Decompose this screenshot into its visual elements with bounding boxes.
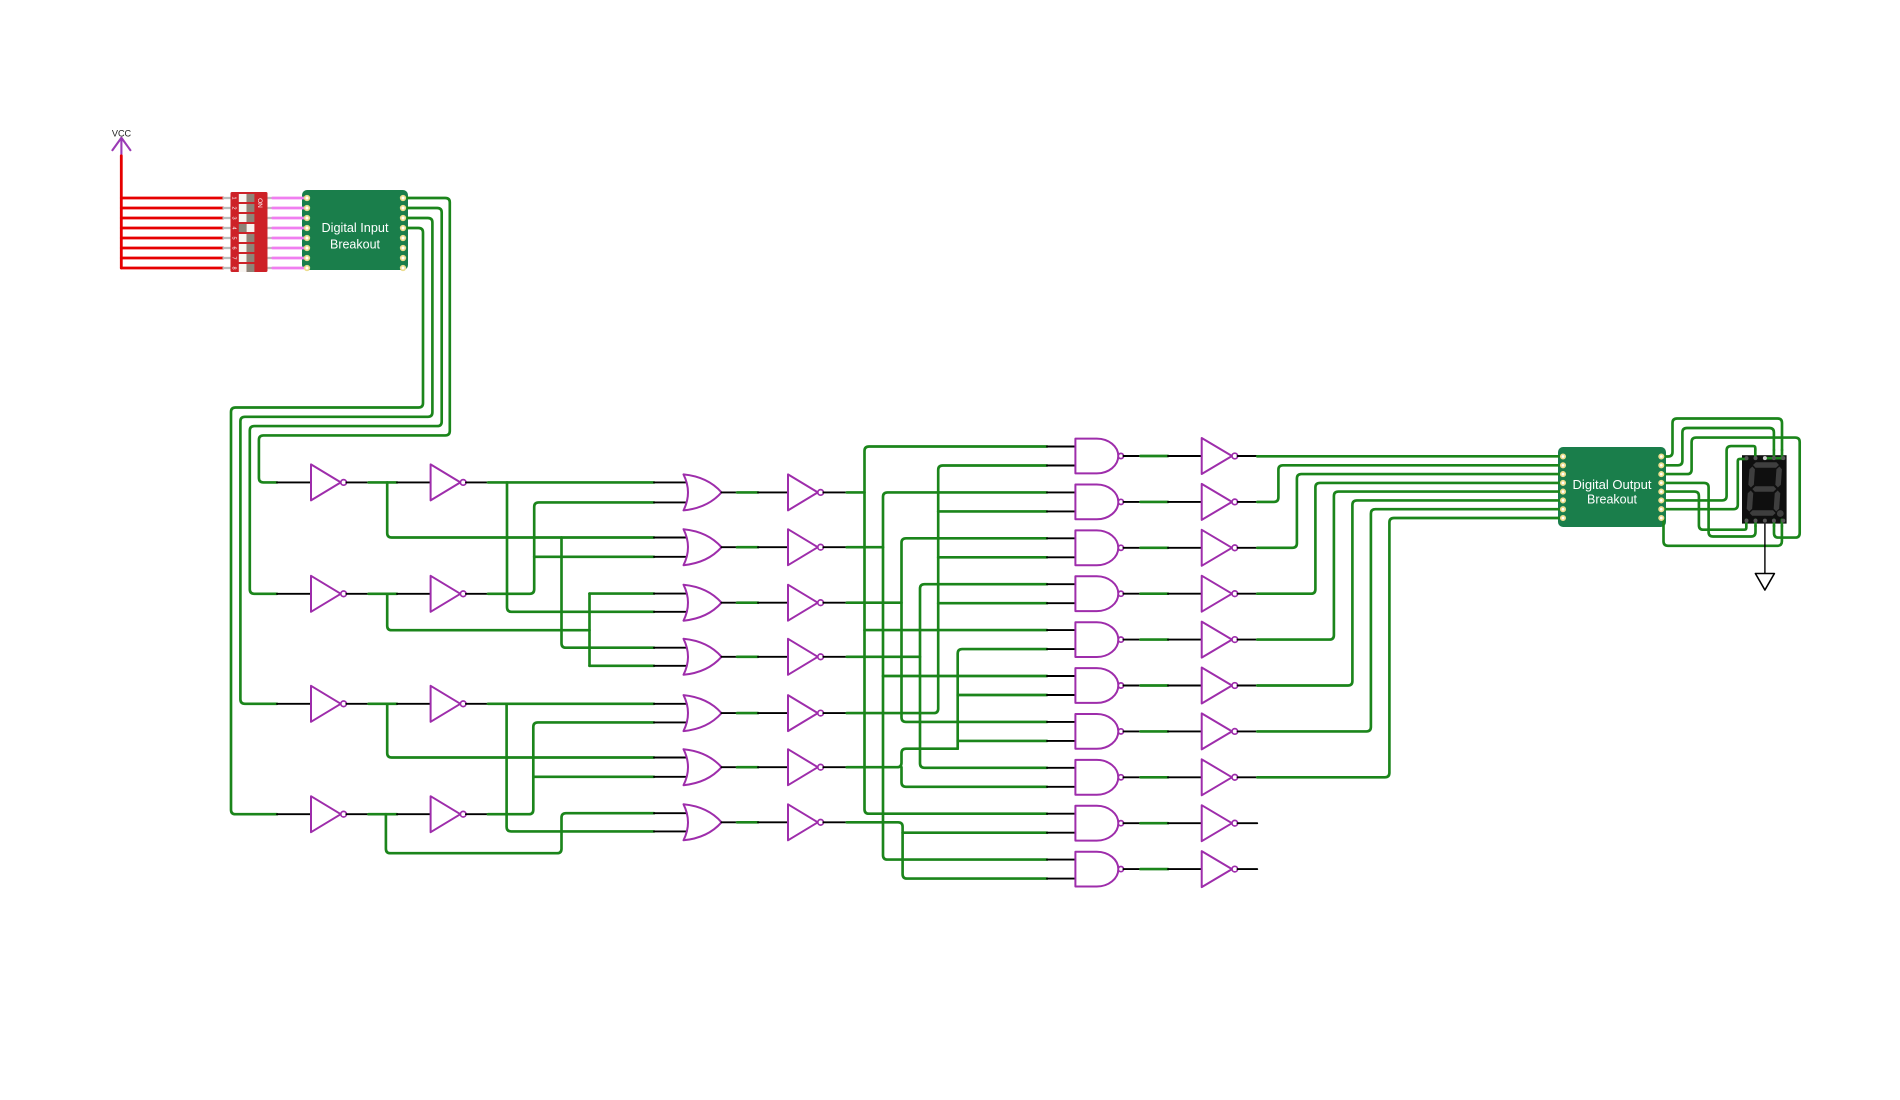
- wire seg out2 to breakout pin2: [1257, 465, 1563, 502]
- pin stub inverter U38 input: [1168, 639, 1202, 641]
- pin stub inverter U9 input: [397, 813, 432, 815]
- pin stub inverter U43 output: [1238, 868, 1258, 870]
- wire VCC trunk (red): [120, 156, 123, 268]
- pin stub inverter U39 output: [1238, 685, 1258, 687]
- trunk2 vertical (out2): [883, 492, 1047, 859]
- nand gate U33 (row 10): [1075, 852, 1118, 887]
- inverter U18 (column 3 row 2): [788, 529, 818, 565]
- wire OR U15 out: [737, 766, 758, 769]
- wire b' to OR3 top: [590, 592, 655, 595]
- pin stub NAND U30 output: [1124, 730, 1141, 732]
- pin stub inverter U34 output: [1238, 455, 1258, 457]
- pin stub inverter U7 input: [397, 593, 432, 595]
- wire NAND U26 to inverter: [1140, 546, 1168, 549]
- inverter U5 (column 1 row 4): [311, 796, 341, 832]
- pin stub inverter U23 input: [758, 821, 789, 823]
- pin stub NAND U33 input top: [1047, 859, 1076, 861]
- wire tip bottom pin4: [1773, 520, 1776, 526]
- pin stub NAND U32 input bottom: [1047, 832, 1076, 834]
- pin stub inverter U34 input: [1168, 455, 1202, 457]
- wire out6 cluster up to trunk6: [847, 749, 958, 768]
- power symbol VCC arrow: [112, 138, 130, 155]
- pin stub inverter U17 input: [758, 491, 789, 493]
- wire seg out3 to breakout pin3: [1257, 474, 1563, 548]
- wire breakout p5 to display bottom pin1: [1661, 492, 1746, 530]
- wire DIP 7 to input breakout (pink): [273, 257, 305, 260]
- pin stub inverter U2 input: [277, 481, 312, 483]
- pin stub OR U10 input bottom: [654, 501, 690, 503]
- pin stub inverter U19 input: [758, 602, 789, 604]
- wire DIP 5 to input breakout (pink): [273, 237, 305, 240]
- wire b to OR2 bottom: [534, 555, 654, 558]
- inverter U8 (column 2 row 3): [431, 686, 461, 722]
- pin stub inverter U43 input: [1168, 868, 1202, 870]
- pin stub NAND U33 input bottom: [1047, 878, 1076, 880]
- pin stub inverter U18 output: [823, 546, 846, 548]
- wire input bit1 to inverter row1: [259, 198, 450, 482]
- pin stub inverter U7 output: [466, 593, 488, 595]
- nand gate U32 (row 9): [1075, 806, 1118, 841]
- wire c to OR7 bottom: [507, 704, 654, 832]
- wire VCC to DIP pin 4 (red): [121, 227, 223, 230]
- pin stub OR U15 input bottom: [654, 776, 690, 778]
- wire trunk2 to NAND6 top: [883, 675, 1047, 678]
- pin stub OR U16 output: [722, 821, 738, 823]
- wire out2 to trunk2: [847, 546, 883, 549]
- wire out3 to trunk3: [847, 601, 902, 604]
- wire display common to ground: [1764, 524, 1766, 574]
- pin stub inverter U2 output: [346, 481, 368, 483]
- wire out6 down to NAND8 bottom: [902, 767, 1048, 787]
- pin stub NAND U27 output: [1124, 593, 1141, 595]
- wire a' branch to OR2 top: [387, 482, 654, 537]
- or gate U10 (row 1): [684, 474, 722, 510]
- pin stub NAND U25 output: [1124, 501, 1141, 503]
- digital output breakout U44 pins: [1561, 454, 1565, 458]
- pin stub NAND U25 input bottom: [1047, 510, 1076, 512]
- svg-text:6: 6: [231, 246, 237, 249]
- pin stub NAND U25 input top: [1047, 491, 1076, 493]
- svg-text:4: 4: [231, 226, 237, 229]
- svg-text:7: 7: [231, 256, 237, 259]
- nand gate U24 (row 1): [1075, 439, 1118, 474]
- pin stub inverter U20 input: [758, 656, 789, 658]
- pin stub OR U13 input bottom: [654, 665, 690, 667]
- wire out7 to trunk7: [847, 822, 1047, 878]
- svg-text:1: 1: [231, 196, 237, 199]
- pin stub OR U14 input top: [654, 703, 690, 705]
- wire OR U10 out: [737, 491, 758, 494]
- or gate U16 (row 7): [684, 804, 722, 840]
- wire breakout p2 to display top pin4: [1661, 428, 1774, 465]
- trunk6 riser vertical: [958, 649, 1047, 749]
- 7-segment display DS1 body: [1742, 455, 1787, 523]
- wire VCC to DIP pin 2 (red): [121, 207, 223, 210]
- pin stub NAND U33 output: [1124, 868, 1141, 870]
- pin stub inverter U20 output: [823, 656, 846, 658]
- wire VCC to DIP pin 1 (red): [121, 197, 223, 200]
- pin stub inverter U36 input: [1168, 547, 1202, 549]
- svg-text:3: 3: [231, 216, 237, 219]
- wire breakout p3 to display bottom pin4: [1661, 438, 1799, 538]
- pin stub NAND U26 input top: [1047, 537, 1076, 539]
- inverter U43 (column 4 row 10): [1202, 851, 1232, 887]
- pin stub inverter U23 output: [823, 821, 846, 823]
- inverter U2 (column 1 row 1): [311, 464, 341, 500]
- wire input bit2 to inverter row2: [250, 208, 442, 594]
- wire NAND U30 to inverter: [1140, 730, 1168, 733]
- pin stub NAND U29 input bottom: [1047, 694, 1076, 696]
- pin stub inverter U36 output: [1238, 547, 1258, 549]
- pin stub OR U15 input top: [654, 757, 690, 759]
- or gate U15 (row 6): [684, 749, 722, 785]
- pin stub OR U12 output: [722, 602, 738, 604]
- wire NAND U31 to inverter: [1140, 776, 1168, 779]
- pin stub inverter U35 output: [1238, 501, 1258, 503]
- wire input bit3 to inverter row3: [240, 218, 432, 704]
- inverter U20 (column 3 row 4): [788, 639, 818, 675]
- wire tip top pin1: [1742, 458, 1747, 461]
- or gate U13 (row 4): [684, 639, 722, 675]
- pin stub NAND U29 input top: [1047, 675, 1076, 677]
- pin stub inverter U18 input: [758, 546, 789, 548]
- pin stub OR U15 output: [722, 766, 738, 768]
- svg-text:5: 5: [231, 236, 237, 239]
- pin stub NAND U27 input bottom: [1047, 602, 1076, 604]
- wire d' branch around buffer: [386, 813, 654, 853]
- wire breakout p6 to display top pin2: [1661, 446, 1755, 500]
- pin stub OR U14 input bottom: [654, 721, 690, 723]
- wire OR U14 out: [737, 712, 758, 715]
- wire OR U11 out: [737, 546, 758, 549]
- pin stub inverter U42 output: [1238, 822, 1258, 824]
- inverter U9 (column 2 row 4): [431, 796, 461, 832]
- pin stub OR U11 input top: [654, 537, 690, 539]
- wire DIP 4 to input breakout (pink): [273, 227, 305, 230]
- wire trunk7 to NAND9 bottom: [903, 831, 1047, 834]
- ground symbol: [1755, 574, 1774, 591]
- wire seg out5 to breakout pin5: [1257, 492, 1563, 640]
- wire NAND U33 to inverter: [1140, 868, 1168, 871]
- pin stub OR U13 output: [722, 656, 738, 658]
- svg-text:ON: ON: [256, 198, 263, 208]
- inverter U42 (column 4 row 9): [1202, 805, 1232, 841]
- wire c' branch to OR6 top: [387, 704, 654, 758]
- wire display top pin3 link: [1767, 457, 1784, 460]
- nand gate U28 (row 5): [1075, 622, 1118, 657]
- wire seg out7 to breakout pin7: [1257, 509, 1563, 731]
- wire DIP 8 to input breakout (pink): [273, 267, 305, 270]
- wire inverter U2 out to buffer: [369, 481, 398, 484]
- wire tip top pin4: [1773, 450, 1776, 459]
- wire trunk6 to NAND6 bottom: [958, 694, 1047, 697]
- pin stub inverter U4 output: [346, 703, 368, 705]
- trunk1 vertical (out1): [865, 447, 1048, 814]
- wire out5 to trunk5: [847, 466, 1047, 714]
- pin stub NAND U32 input top: [1047, 813, 1076, 815]
- wire NAND U27 to inverter: [1140, 592, 1168, 595]
- wire tip bottom pin1: [1745, 520, 1748, 526]
- pin stub inverter U38 output: [1238, 639, 1258, 641]
- wire breakout p4 to display bottom pin2: [1661, 483, 1755, 537]
- wire c to OR5 top: [488, 702, 654, 705]
- trunk3 vertical (out3): [902, 538, 1048, 722]
- inverter U21 (column 3 row 5): [788, 695, 818, 731]
- pin stub inverter U8 input: [397, 703, 432, 705]
- pin stub inverter U37 input: [1168, 593, 1202, 595]
- wire VCC to DIP pin 5 (red): [121, 237, 223, 240]
- pin stub OR U12 input bottom: [654, 611, 690, 613]
- pin stub NAND U24 input bottom: [1047, 465, 1076, 467]
- pin stub inverter U8 output: [466, 703, 488, 705]
- wire DIP 6 to input breakout (pink): [273, 247, 305, 250]
- pin stub OR U13 input top: [654, 647, 690, 649]
- or gate U11 (row 2): [684, 529, 722, 565]
- wire NAND U28 to inverter: [1140, 638, 1168, 641]
- pin stub NAND U28 input bottom: [1047, 648, 1076, 650]
- wire NAND U32 to inverter: [1140, 822, 1168, 825]
- wire NAND U25 to inverter: [1140, 501, 1168, 504]
- wire inverter U4 out to buffer: [369, 702, 398, 705]
- wire tip top pin5: [1781, 450, 1784, 459]
- svg-text:Digital Input: Digital Input: [322, 220, 389, 235]
- pin stub NAND U27 input top: [1047, 583, 1076, 585]
- inverter U19 (column 3 row 3): [788, 585, 818, 621]
- wire trunk5 to NAND2 bottom: [938, 510, 1047, 513]
- or gate U12 (row 3): [684, 585, 722, 621]
- pin stub NAND U26 input bottom: [1047, 556, 1076, 558]
- pin stub inverter U17 output: [823, 491, 846, 493]
- pin stub NAND U24 output: [1124, 455, 1141, 457]
- inverter U22 (column 3 row 6): [788, 749, 818, 785]
- pin stub inverter U40 output: [1238, 730, 1258, 732]
- svg-text:Digital Output: Digital Output: [1573, 478, 1653, 492]
- wire b' to OR4 bottom: [590, 664, 655, 667]
- inverter U34 (column 4 row 1): [1202, 438, 1232, 474]
- wire DIP 2 to input breakout (pink): [273, 207, 305, 210]
- wire trunk6 to NAND7 bottom: [958, 740, 1047, 743]
- wire breakout p1 to display top pin5: [1661, 419, 1782, 457]
- pin stub NAND U28 output: [1124, 639, 1141, 641]
- inverter U38 (column 4 row 5): [1202, 622, 1232, 658]
- inverter U4 (column 1 row 3): [311, 686, 341, 722]
- 7-segment display DS1 pins: [1745, 456, 1749, 460]
- inverter U17 (column 3 row 1): [788, 474, 818, 510]
- pin stub inverter U37 output: [1238, 593, 1258, 595]
- pin stub inverter U5 input: [277, 813, 312, 815]
- wire DIP 1 to input breakout (pink): [273, 197, 305, 200]
- wire breakout p8 to display bottom pin5: [1661, 518, 1782, 546]
- nand gate U30 (row 7): [1075, 714, 1118, 749]
- or gate U14 (row 5): [684, 695, 722, 731]
- pin stub NAND U29 output: [1124, 685, 1141, 687]
- wire seg out1 to breakout pin1: [1257, 455, 1563, 458]
- wire tip bottom pin5: [1781, 520, 1784, 526]
- inverter U41 (column 4 row 8): [1202, 759, 1232, 795]
- wire trunk5 to NAND3 bottom: [938, 556, 1047, 559]
- pin stub inverter U41 input: [1168, 776, 1202, 778]
- pin stub inverter U4 input: [277, 703, 312, 705]
- wire a to OR3 bottom (Q): [507, 482, 654, 611]
- wire seg out6 to breakout pin6: [1257, 500, 1563, 685]
- pin stub inverter U6 output: [466, 481, 488, 483]
- inverter U36 (column 4 row 3): [1202, 530, 1232, 566]
- inverter U37 (column 4 row 4): [1202, 576, 1232, 612]
- pin stub NAND U24 input top: [1047, 446, 1076, 448]
- wire a to OR1 top: [488, 481, 654, 484]
- pin stub inverter U3 output: [346, 593, 368, 595]
- pin stub NAND U30 input bottom: [1047, 740, 1076, 742]
- nand gate U29 (row 6): [1075, 668, 1118, 703]
- nand gate U26 (row 3): [1075, 530, 1118, 565]
- wire OR U16 out: [737, 821, 758, 824]
- wire out4 to trunk4: [847, 655, 920, 658]
- wire out1 to trunk1: [847, 491, 865, 494]
- wire OR U13 out: [737, 655, 758, 658]
- pin stub inverter U40 input: [1168, 730, 1202, 732]
- dip switch S1: [223, 197, 232, 199]
- pin stub OR U11 output: [722, 546, 738, 548]
- pin stub OR U10 input top: [654, 481, 690, 483]
- pin stub inverter U5 output: [346, 813, 368, 815]
- wire inverter U5 out to buffer: [369, 813, 398, 816]
- wire DIP 3 to input breakout (pink): [273, 217, 305, 220]
- inverter U3 (column 1 row 2): [311, 576, 341, 612]
- wire inverter U3 out to buffer: [369, 592, 398, 595]
- digital output breakout U44: [1558, 447, 1666, 527]
- pin stub OR U11 input bottom: [654, 556, 690, 558]
- pin stub inverter U35 input: [1168, 501, 1202, 503]
- svg-text:8: 8: [231, 266, 237, 269]
- wire breakout p7 to display top pin1: [1661, 459, 1742, 509]
- pin stub inverter U21 output: [823, 712, 846, 714]
- wire seg out4 to breakout pin4: [1257, 483, 1563, 594]
- pin stub NAND U31 output: [1124, 776, 1141, 778]
- wire d to OR6 bottom: [533, 775, 654, 778]
- wire b' branch down: [387, 594, 589, 630]
- wire VCC to DIP pin 8 (red): [121, 267, 223, 270]
- nand gate U31 (row 8): [1075, 760, 1118, 795]
- pin stub inverter U39 input: [1168, 685, 1202, 687]
- wire OR U12 out: [737, 601, 758, 604]
- pin stub inverter U22 output: [823, 766, 846, 768]
- digital input breakout U1 pins: [305, 196, 310, 201]
- wire d up trunk: [488, 722, 654, 814]
- svg-text:Breakout: Breakout: [1587, 492, 1638, 506]
- wire seg out8 to breakout pin8: [1257, 518, 1563, 777]
- wire VCC to DIP pin 6 (red): [121, 247, 223, 250]
- pin stub NAND U31 input top: [1047, 767, 1076, 769]
- wire tip bottom pin2: [1754, 520, 1757, 526]
- wire VCC to DIP pin 3 (red): [121, 217, 223, 220]
- pin stub NAND U26 output: [1124, 547, 1141, 549]
- wire NAND U29 to inverter: [1140, 684, 1168, 687]
- pin stub OR U16 input top: [654, 812, 690, 814]
- trunk4 vertical (out4): [920, 584, 1047, 768]
- inverter U23 (column 3 row 7): [788, 804, 818, 840]
- inverter U40 (column 4 row 7): [1202, 713, 1232, 749]
- pin stub OR U12 input top: [654, 593, 690, 595]
- pin stub inverter U42 input: [1168, 822, 1202, 824]
- wire input bit4 to inverter row4: [231, 228, 423, 814]
- pin stub NAND U31 input bottom: [1047, 786, 1076, 788]
- inverter U39 (column 4 row 6): [1202, 668, 1232, 704]
- wire NAND U24 to inverter: [1140, 455, 1168, 458]
- digital input breakout U1: [302, 190, 408, 270]
- pin stub NAND U30 input top: [1047, 721, 1076, 723]
- pin stub inverter U22 input: [758, 766, 789, 768]
- pin stub NAND U32 output: [1124, 822, 1141, 824]
- wire a' branch to OR4 top: [562, 538, 655, 648]
- inverter U7 (column 2 row 2): [431, 576, 461, 612]
- pin stub NAND U28 input top: [1047, 629, 1076, 631]
- svg-text:Breakout: Breakout: [330, 237, 380, 252]
- pin stub inverter U19 output: [823, 602, 846, 604]
- pin stub inverter U21 input: [758, 712, 789, 714]
- inverter U35 (column 4 row 2): [1202, 484, 1232, 520]
- pin stub inverter U3 input: [277, 593, 312, 595]
- wire tip top pin2: [1754, 450, 1757, 459]
- pin stub OR U10 output: [722, 491, 738, 493]
- wire b' vertical riser: [588, 594, 591, 666]
- nand gate U25 (row 2): [1075, 485, 1118, 520]
- wire trunk5 to NAND4 bottom: [938, 602, 1047, 605]
- wire b up trunk: [488, 502, 654, 593]
- wire VCC to DIP pin 7 (red): [121, 257, 223, 260]
- pin stub inverter U6 input: [397, 481, 432, 483]
- pin stub inverter U9 output: [466, 813, 488, 815]
- nand gate U27 (row 4): [1075, 576, 1118, 611]
- wire trunk1 to NAND5 top: [865, 629, 1048, 632]
- svg-text:2: 2: [231, 206, 237, 209]
- inverter U6 (column 2 row 1): [431, 464, 461, 500]
- pin stub OR U14 output: [722, 712, 738, 714]
- pin stub OR U16 input bottom: [654, 830, 690, 832]
- pin stub inverter U41 output: [1238, 776, 1258, 778]
